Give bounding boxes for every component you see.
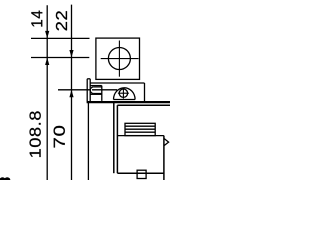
screw cross vertical [122,88,124,99]
shoulder line [117,135,163,137]
label 22 [56,11,67,30]
label 14 [31,11,42,27]
label 70 [54,126,65,148]
bottom tab [137,170,146,178]
screw head top edge [94,86,102,88]
junction box [96,38,140,79]
flange top [90,82,144,84]
wire extension line E2 y=57.5 [31,57,89,59]
left bar cap [87,78,90,80]
terminal notch top [90,85,102,87]
centerline vertical [118,41,120,77]
wire dimension line A x=47.3 [46,5,48,180]
flange right edge [144,83,146,102]
terminal notch right edge [101,86,103,101]
fin line 3 [125,131,155,133]
wire dimension line B x=71 [71,5,73,180]
left bar outer [86,79,88,102]
fin line 1 [125,125,155,127]
coil fins block [125,123,155,135]
body left edge [87,102,89,180]
arrow down at E1 [45,31,49,39]
mounting plate thick edge [87,101,170,103]
label 108.8 [29,111,40,157]
dome base chord [114,99,136,101]
conduit hole circle [108,48,130,70]
arrow up at E2 on A [45,58,49,66]
case top [117,104,170,106]
seam line to dome [92,89,117,91]
left bar inner / flange left edge [89,79,91,102]
fin line 2 [125,128,155,130]
arrow down at E2 on B [69,50,73,58]
arrow up at E3 on B [69,90,73,98]
screw head side view arc [90,87,102,94]
screw head circle [119,89,127,97]
inner case bottom [117,172,163,174]
wire extension line E3 y=90.3 [58,89,90,91]
inner case left [116,105,118,173]
centerline horizontal [101,58,139,60]
terminal notch bottom [90,93,102,95]
outer case left [113,102,115,173]
screw cross horizontal [118,92,129,94]
wire extension line E1 y=38.4 [31,37,90,39]
cropped caption letters [0,177,10,183]
dome boss arc [114,88,136,100]
clip notch [164,138,169,145]
screw head bottom edge [94,93,102,95]
inner case right [163,136,165,180]
